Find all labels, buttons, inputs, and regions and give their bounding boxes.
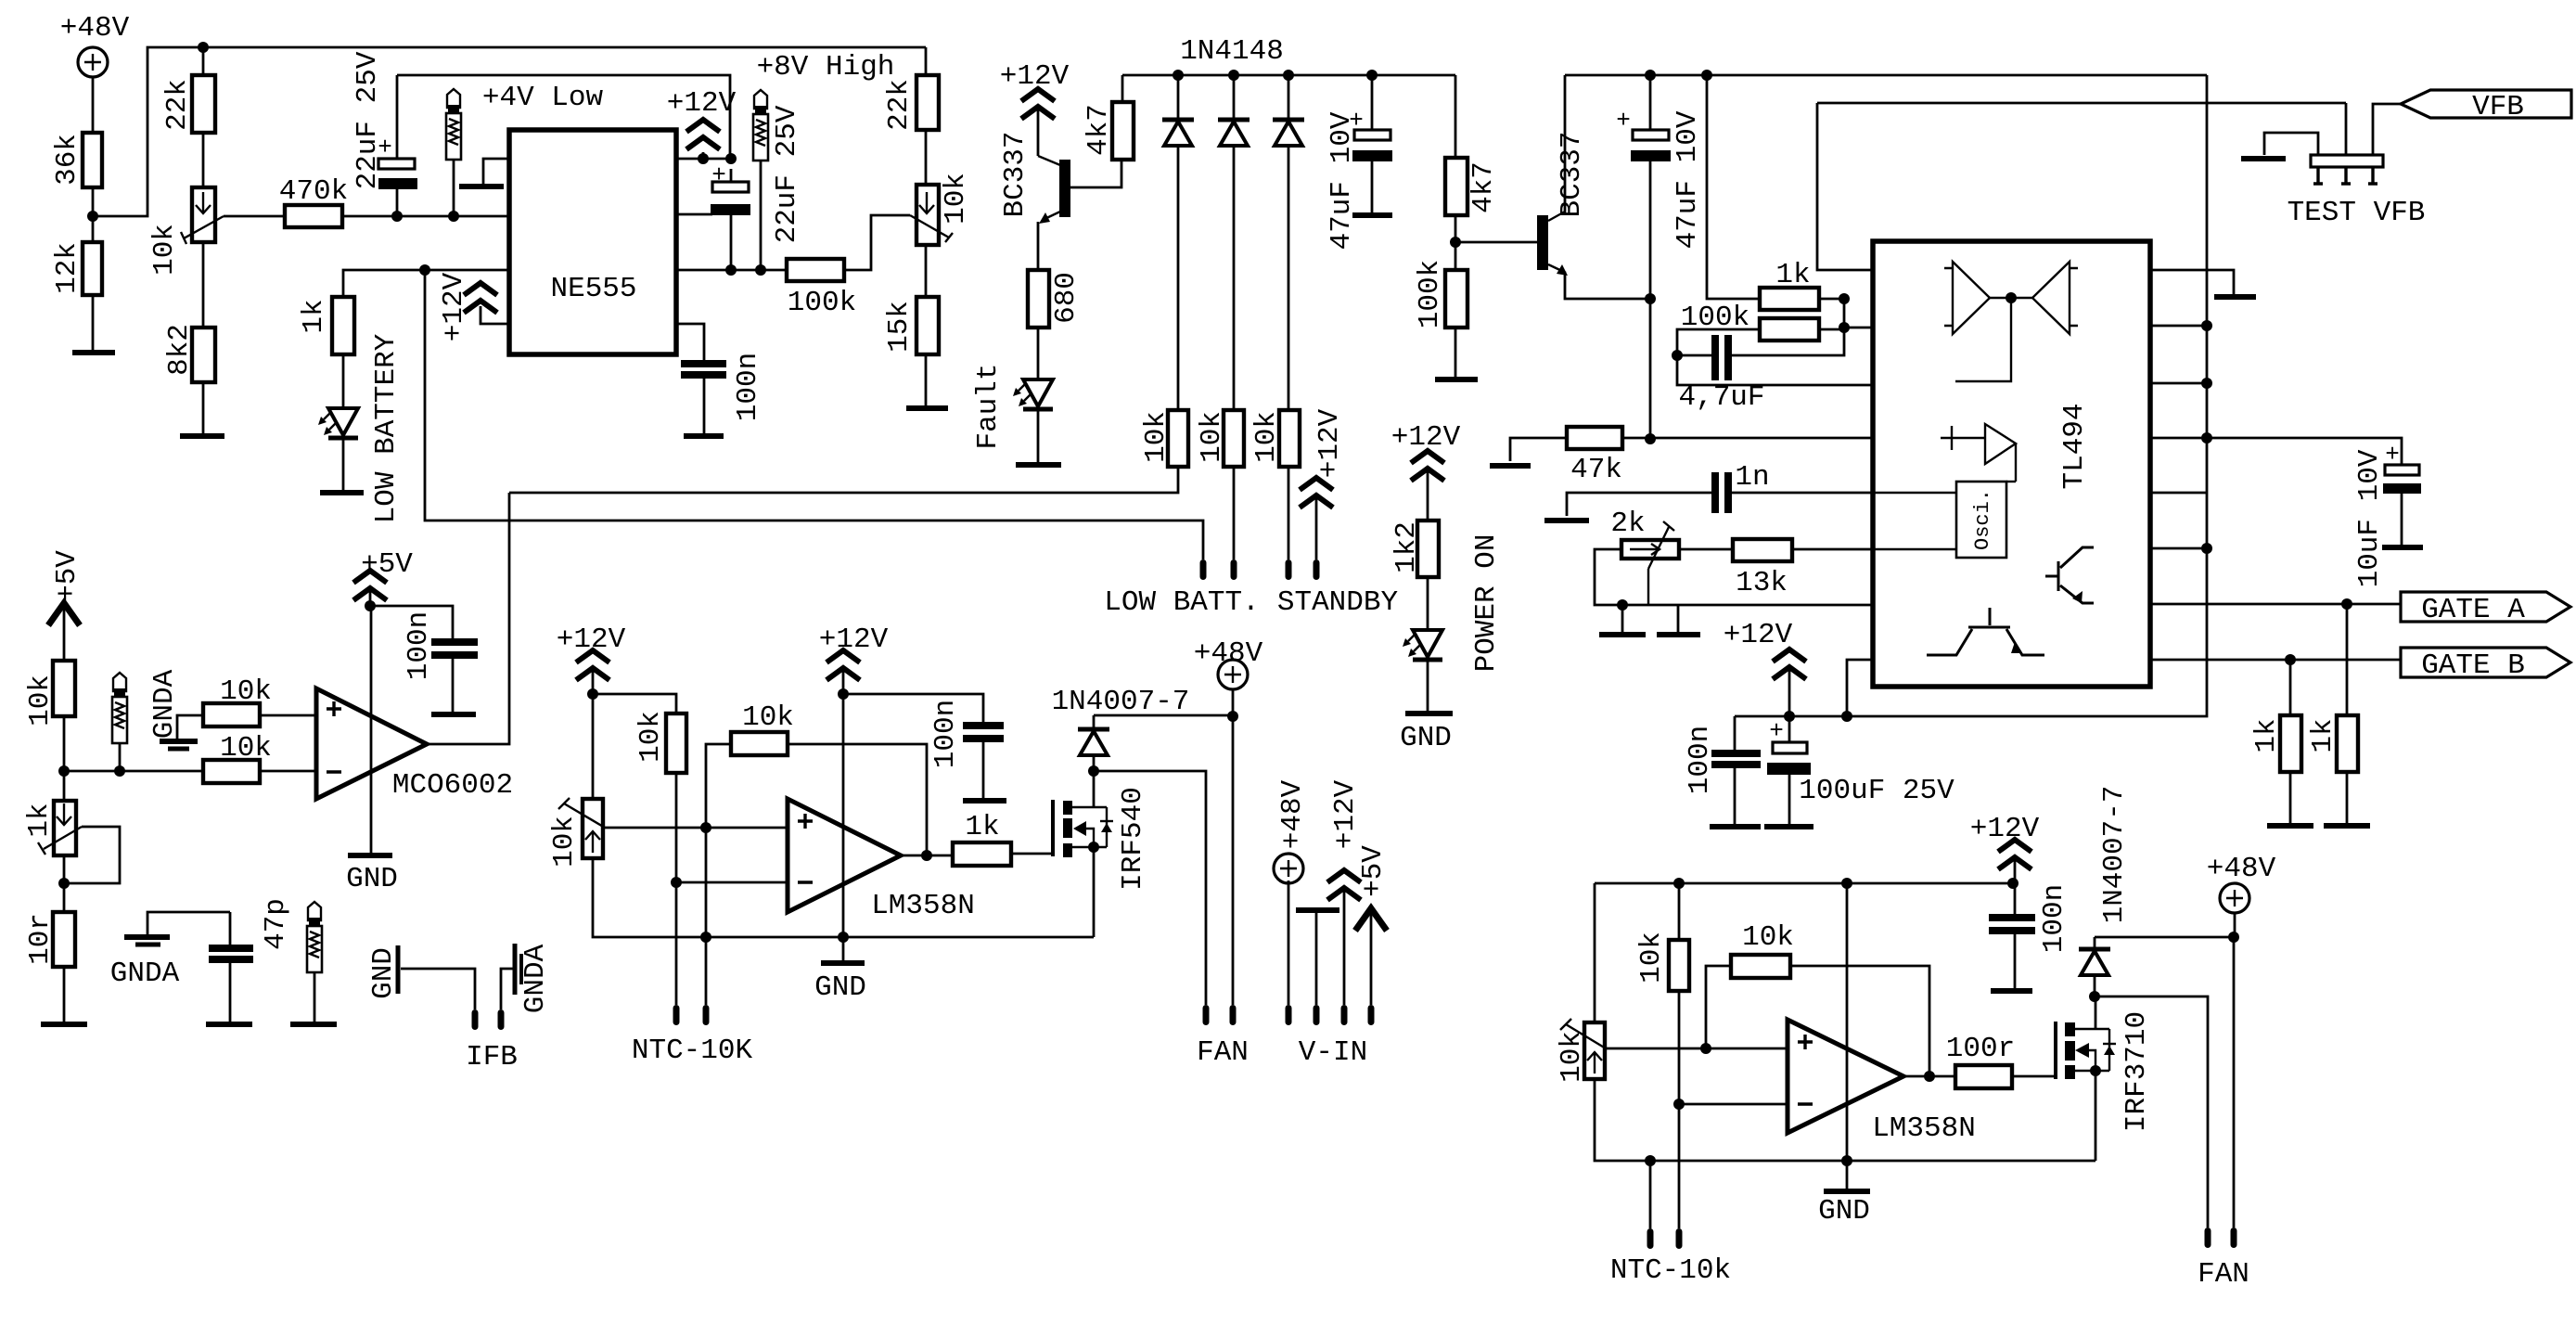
svg-text:+12V: +12V bbox=[1314, 408, 1346, 478]
svg-text:1k: 1k bbox=[23, 803, 56, 837]
+input wire bbox=[706, 827, 788, 829]
resistor 100k #3 bbox=[1760, 318, 1819, 341]
pin V-IN 4 bbox=[1368, 1005, 1375, 1025]
pin STANDBY 1 bbox=[1286, 559, 1292, 580]
trimmer 10k #2 bbox=[916, 185, 939, 245]
wire pin right gnd bbox=[2150, 270, 2234, 295]
op-amp U2 MCO6002 bbox=[316, 688, 427, 799]
oscillator box bbox=[1956, 482, 2006, 558]
wire pin right bbox=[2150, 382, 2207, 385]
svg-text:NTC-10k: NTC-10k bbox=[1610, 1254, 1731, 1287]
LED low battery bbox=[318, 408, 358, 438]
resistor 10k bias fan2 bbox=[1678, 883, 1681, 940]
svg-text:FAN: FAN bbox=[1197, 1036, 1249, 1069]
ground bbox=[684, 433, 724, 439]
power wire bbox=[370, 606, 373, 855]
svg-text:100k: 100k bbox=[788, 287, 856, 319]
ground bbox=[320, 490, 364, 495]
svg-text:4k7: 4k7 bbox=[1467, 161, 1500, 213]
svg-text:100n: 100n bbox=[403, 611, 435, 680]
svg-text:470k: 470k bbox=[279, 175, 348, 208]
resistor 100r bbox=[1955, 1065, 2012, 1088]
svg-text:10k: 10k bbox=[1635, 932, 1668, 983]
svg-text:GATE A: GATE A bbox=[2421, 594, 2525, 626]
svg-text:IRF540: IRF540 bbox=[1117, 787, 1149, 891]
svg-text:4k7: 4k7 bbox=[1083, 104, 1115, 156]
svg-text:10uF 10V: 10uF 10V bbox=[2353, 449, 2386, 587]
wire bbox=[1677, 329, 1760, 355]
wire bbox=[1455, 215, 1457, 270]
jumper J1 bbox=[446, 89, 461, 160]
wire top rail 1N4148 bbox=[1122, 74, 1455, 77]
svg-text:1N4148: 1N4148 bbox=[1180, 35, 1284, 68]
ground bar vin bbox=[1296, 907, 1339, 913]
ground bbox=[2324, 823, 2370, 829]
wire pin2 bbox=[1844, 327, 1873, 329]
jumper J3 bbox=[112, 673, 127, 743]
capacitor 47uF 10V bbox=[1371, 75, 1374, 130]
power flag +48V vin bbox=[1274, 854, 1303, 883]
svg-text:POWER ON: POWER ON bbox=[1470, 534, 1503, 673]
LED power on bbox=[1403, 630, 1442, 660]
wire 4k7 feed bbox=[1455, 75, 1457, 158]
wire FAN feed bbox=[1094, 771, 1206, 1005]
diode D4 1N4007-7 bbox=[1093, 715, 1096, 727]
ground bbox=[821, 960, 865, 966]
wire pin3 left bbox=[343, 270, 509, 297]
pin LOW BATT 2 bbox=[1231, 559, 1237, 580]
ground bbox=[1405, 711, 1453, 716]
node dot bbox=[198, 42, 209, 53]
ground bbox=[963, 798, 1006, 803]
ground bbox=[348, 853, 392, 858]
pin FAN 1 bbox=[1203, 1005, 1210, 1025]
resistor 36k bbox=[83, 133, 102, 187]
ground bbox=[1544, 518, 1589, 523]
svg-text:10k: 10k bbox=[1742, 921, 1794, 954]
resistor 10k bbox=[53, 661, 75, 716]
svg-text:+12V: +12V bbox=[1724, 619, 1793, 651]
wire bbox=[1037, 328, 1040, 379]
svg-text:BC337: BC337 bbox=[1556, 131, 1588, 217]
left rail wire bbox=[1594, 883, 1596, 1022]
ground bbox=[2267, 823, 2313, 829]
svg-text:+: + bbox=[2385, 441, 2400, 469]
svg-text:47uF 10V: 47uF 10V bbox=[1326, 111, 1358, 250]
wire FAN2 +48V bbox=[2233, 937, 2236, 1228]
svg-text:GATE B: GATE B bbox=[2421, 649, 2525, 682]
pin V-IN 1 bbox=[1286, 1005, 1292, 1025]
svg-text:12k: 12k bbox=[51, 242, 83, 294]
wire NTC2 bbox=[705, 828, 708, 1005]
capacitor 22uF 25V bbox=[396, 75, 399, 159]
svg-text:LM358N: LM358N bbox=[1872, 1112, 1976, 1145]
pin NTC 1 bbox=[673, 1005, 680, 1025]
svg-text:22uF 25V: 22uF 25V bbox=[771, 105, 803, 243]
svg-text:+12V: +12V bbox=[667, 87, 737, 120]
svg-text:IRF3710: IRF3710 bbox=[2121, 1011, 2153, 1132]
power +12V left bbox=[481, 306, 509, 324]
svg-text:V-IN: V-IN bbox=[1299, 1036, 1367, 1069]
svg-text:LM358N: LM358N bbox=[871, 890, 975, 922]
wire to +48V bbox=[1094, 714, 1233, 717]
svg-text:BC337: BC337 bbox=[999, 131, 1032, 217]
capacitor 22uF 25V #2 bbox=[712, 182, 749, 192]
svg-text:1N4007-7: 1N4007-7 bbox=[1052, 686, 1190, 718]
ground bbox=[41, 1022, 87, 1027]
svg-text:1k: 1k bbox=[2307, 718, 2339, 752]
svg-text:10k: 10k bbox=[220, 732, 272, 765]
wire 2k bottom rail bbox=[1595, 549, 1873, 605]
svg-text:+12V: +12V bbox=[1000, 60, 1070, 93]
internal transistor T2 bbox=[1927, 608, 2044, 655]
svg-text:+8V High: +8V High bbox=[757, 51, 895, 84]
wire bbox=[92, 77, 95, 133]
power flag +48V bbox=[1218, 660, 1248, 689]
resistor 1k low battery bbox=[332, 297, 354, 354]
resistor 10k bias bbox=[666, 713, 686, 773]
svg-text:100r: 100r bbox=[1946, 1033, 2015, 1065]
wire feedback top bbox=[1817, 102, 2346, 105]
wire bbox=[202, 47, 205, 75]
capacitor 47p bbox=[229, 912, 232, 945]
capacitor 10uF 10V bbox=[2385, 465, 2419, 475]
power wire op2 bbox=[1846, 883, 1849, 1189]
svg-text:GND: GND bbox=[1400, 722, 1452, 754]
svg-text:+12V: +12V bbox=[438, 272, 470, 341]
wire bbox=[1427, 577, 1429, 630]
wire gnd rail bbox=[593, 858, 1094, 937]
ground gnda bbox=[177, 715, 203, 739]
wire pin right bbox=[2150, 325, 2207, 328]
wire NE555 pin right +12V bbox=[676, 158, 731, 161]
resistor 1k bbox=[1760, 288, 1819, 310]
resistor 10k feedback fan2 bbox=[1731, 955, 1790, 978]
svg-text:47uF 10V: 47uF 10V bbox=[1672, 110, 1704, 249]
trimmer 10k bbox=[192, 187, 215, 242]
long wire NE555 low-batt sense bbox=[425, 270, 1203, 559]
banner VFB bbox=[2401, 90, 2571, 118]
transistor Q2 BC337 bbox=[1537, 215, 1548, 270]
svg-text:+: + bbox=[1769, 717, 1784, 745]
transistor Q3 IRF540 bbox=[1051, 800, 1055, 856]
capacitor 100n fan1 bbox=[843, 694, 983, 722]
svg-text:Fault: Fault bbox=[972, 363, 1005, 449]
svg-text:TL494: TL494 bbox=[2058, 403, 2091, 489]
wire bbox=[63, 855, 66, 912]
error amp triangles bbox=[1953, 262, 1990, 334]
svg-text:1k2: 1k2 bbox=[1391, 521, 1423, 573]
svg-text:VFB: VFB bbox=[2472, 91, 2524, 123]
wire VFB middle pin bbox=[2345, 103, 2348, 155]
resistor 10k feedback bbox=[731, 732, 788, 755]
IC TL494 bbox=[1873, 241, 2150, 687]
wire diode to +48V bbox=[2095, 936, 2234, 939]
svg-text:13k: 13k bbox=[1736, 567, 1788, 599]
resistor 12k bbox=[83, 242, 102, 295]
svg-text:10r: 10r bbox=[24, 913, 57, 965]
pin NTC2-1 bbox=[1647, 1228, 1654, 1249]
svg-text:1N4007-7: 1N4007-7 bbox=[2098, 786, 2131, 924]
svg-text:10k: 10k bbox=[1556, 1031, 1588, 1083]
wire to pin 1 bbox=[1817, 103, 1873, 270]
capacitor 47uF 10V #2 bbox=[1649, 75, 1652, 130]
svg-text:FAN: FAN bbox=[2198, 1258, 2249, 1291]
svg-text:GND: GND bbox=[814, 971, 866, 1004]
pin V-IN 3 bbox=[1341, 1005, 1348, 1025]
wire bbox=[63, 716, 66, 801]
wire pin4 dead time bbox=[1650, 437, 1873, 440]
wire bbox=[202, 382, 205, 436]
node dot bbox=[87, 211, 98, 222]
resistor 10k - bbox=[203, 760, 260, 783]
resistor 470k bbox=[285, 205, 342, 227]
wire top rail right bbox=[1565, 74, 2207, 77]
capacitor 1n bbox=[1711, 472, 1719, 513]
resistor 4k7 bbox=[1112, 102, 1134, 160]
svg-text:+12V: +12V bbox=[819, 624, 889, 656]
svg-text:10k: 10k bbox=[1196, 411, 1228, 463]
resistor 680 bbox=[1028, 270, 1049, 328]
capacitor 100uF 25V bbox=[1788, 716, 1791, 742]
svg-text:+: + bbox=[1616, 107, 1631, 135]
wire NE555 out right bbox=[676, 269, 787, 272]
resistor 1k gate A bbox=[2346, 604, 2349, 715]
ground bbox=[459, 184, 504, 189]
svg-text:10k: 10k bbox=[548, 816, 581, 868]
resistor 15k bbox=[916, 297, 939, 354]
-input wire bbox=[1679, 1103, 1788, 1106]
ground bbox=[906, 405, 948, 411]
output wire bbox=[427, 493, 509, 744]
svg-text:1k: 1k bbox=[298, 299, 330, 333]
wiper wire bbox=[1647, 569, 1649, 605]
wire bbox=[1622, 437, 1650, 440]
resistor 10k bbox=[1279, 410, 1300, 467]
ground stub bbox=[1621, 605, 1624, 633]
node dot bbox=[419, 264, 430, 276]
ground bbox=[2241, 156, 2286, 161]
svg-text:+5V: +5V bbox=[51, 550, 83, 602]
capacitor 100n rail bbox=[1734, 716, 1737, 750]
pin NTC 2 bbox=[703, 1005, 710, 1025]
wire bbox=[1455, 328, 1457, 379]
wire bbox=[92, 187, 95, 242]
svg-text:10k: 10k bbox=[220, 675, 272, 708]
capacitor 100n bbox=[681, 360, 726, 367]
ground bbox=[1352, 212, 1392, 218]
svg-text:+5V: +5V bbox=[1357, 845, 1390, 897]
wire pin right bbox=[2150, 547, 2207, 550]
svg-text:10k: 10k bbox=[24, 675, 57, 726]
wire FAN +48V bbox=[1232, 716, 1235, 1005]
internal transistor T1 bbox=[2045, 547, 2094, 603]
svg-text:2k: 2k bbox=[1610, 508, 1645, 540]
svg-text:+48V: +48V bbox=[60, 12, 130, 45]
wire bbox=[925, 354, 928, 408]
wire GATE A bbox=[2150, 603, 2401, 606]
svg-text:GNDA: GNDA bbox=[519, 944, 552, 1013]
svg-text:10k: 10k bbox=[1140, 411, 1173, 463]
drain wire bbox=[2095, 996, 2097, 1029]
resistor 100k #2 bbox=[1445, 270, 1467, 328]
ground bbox=[1764, 824, 1813, 829]
resistor 47k bbox=[1567, 427, 1622, 449]
IC NE555 bbox=[509, 130, 676, 354]
resistor 10r bbox=[53, 912, 75, 967]
wiper wire bbox=[1605, 1048, 1706, 1050]
resistor 1k gate bbox=[953, 842, 1011, 866]
ground bbox=[1016, 462, 1061, 468]
svg-text:100n: 100n bbox=[2038, 884, 2070, 953]
wire bbox=[1121, 75, 1124, 102]
power +12V bbox=[576, 650, 609, 680]
trimmer 10k fan2 bbox=[1584, 1022, 1605, 1079]
wire to top rail bbox=[93, 47, 926, 216]
op-amp U3 LM358N bbox=[788, 799, 901, 912]
wire pin right to 10uF bbox=[2150, 437, 2207, 440]
ground bbox=[290, 1022, 337, 1027]
wire bbox=[342, 215, 509, 218]
LED Fault bbox=[1013, 379, 1053, 409]
diode D1 1N4148 bbox=[1177, 75, 1180, 118]
svg-text:TEST VFB: TEST VFB bbox=[2288, 197, 2426, 229]
wire FAN2 feed bbox=[2095, 996, 2208, 1228]
ground bbox=[2382, 545, 2423, 550]
svg-text:8k2: 8k2 bbox=[163, 324, 196, 376]
svg-text:LOW BATT.: LOW BATT. bbox=[1104, 586, 1259, 619]
trimmer 2k bbox=[1621, 540, 1679, 559]
svg-text:STANDBY: STANDBY bbox=[1277, 586, 1399, 619]
wire bbox=[1233, 467, 1236, 559]
-input wire bbox=[676, 881, 788, 884]
svg-text:100n: 100n bbox=[1684, 726, 1716, 794]
ground bbox=[72, 350, 115, 355]
capacitor 4,7uF bbox=[1711, 335, 1719, 380]
ground bbox=[180, 433, 224, 439]
svg-text:MCO6002: MCO6002 bbox=[392, 769, 513, 802]
pin V-IN 2 bbox=[1314, 1005, 1320, 1025]
wire 1k feed bbox=[1707, 75, 1760, 299]
+input wire bbox=[1706, 1048, 1788, 1050]
svg-text:1k: 1k bbox=[1775, 259, 1810, 291]
svg-text:10k: 10k bbox=[742, 701, 794, 734]
ground bbox=[431, 712, 476, 717]
node dot bbox=[391, 211, 403, 222]
wire VFB right pin bbox=[2373, 104, 2401, 155]
ground bbox=[1435, 377, 1478, 382]
wire NE555 pin2 right bbox=[676, 213, 712, 216]
svg-text:680: 680 bbox=[1050, 272, 1083, 324]
svg-text:22uF 25V: 22uF 25V bbox=[352, 51, 384, 189]
ground bbox=[1490, 463, 1531, 469]
resistor 10k + bbox=[203, 703, 260, 726]
svg-text:GNDA: GNDA bbox=[110, 958, 180, 990]
svg-text:+12V: +12V bbox=[1329, 779, 1362, 849]
wire bbox=[675, 773, 678, 1005]
wire pin right bbox=[2150, 492, 2207, 495]
base wire Q2 bbox=[1455, 241, 1537, 244]
ground bbox=[2214, 294, 2256, 300]
source wire bbox=[2095, 1071, 2097, 1161]
resistor 4k7 #2 bbox=[1445, 158, 1467, 215]
base wire bbox=[1070, 160, 1121, 187]
diode D3 1N4148 bbox=[1288, 75, 1290, 118]
header pins bbox=[2313, 167, 2377, 184]
svg-text:10k: 10k bbox=[634, 711, 667, 763]
trimmer 10k fan1 bbox=[592, 694, 595, 799]
svg-text:10k: 10k bbox=[1250, 411, 1283, 463]
pin FAN2 1 bbox=[2205, 1228, 2211, 1248]
source wire bbox=[1093, 847, 1096, 937]
drain wire bbox=[1093, 771, 1096, 807]
svg-text:+: + bbox=[711, 161, 726, 189]
wire GATE B bbox=[2150, 659, 2401, 662]
wire bbox=[593, 694, 676, 713]
vertical +12V feed bbox=[1735, 75, 2207, 716]
svg-text:10k: 10k bbox=[940, 173, 972, 225]
svg-text:IFB: IFB bbox=[466, 1041, 518, 1073]
pin wire to ground tab bbox=[483, 159, 509, 185]
resistor 8k2 bbox=[192, 328, 215, 382]
power flag +48V bbox=[78, 47, 108, 77]
svg-text:Osci.: Osci. bbox=[1971, 489, 1994, 550]
pin STANDBY 2 bbox=[1314, 559, 1320, 580]
wire bbox=[92, 295, 95, 353]
svg-text:GND: GND bbox=[1818, 1195, 1870, 1228]
svg-text:100k: 100k bbox=[1414, 260, 1446, 328]
resistor 10k bbox=[1224, 410, 1244, 467]
wiper wire bbox=[603, 827, 706, 829]
wire bbox=[925, 245, 928, 297]
svg-text:47p: 47p bbox=[260, 898, 292, 950]
resistor 10k bbox=[1168, 410, 1188, 467]
resistor 22k #2 bbox=[916, 75, 939, 130]
svg-text:100n: 100n bbox=[929, 700, 962, 768]
wire bbox=[1819, 298, 1844, 301]
wire bbox=[342, 354, 345, 408]
wire pin12 +12V bbox=[1847, 660, 1873, 716]
ground GNDA 2 bbox=[147, 912, 230, 935]
svg-text:LOW BATTERY: LOW BATTERY bbox=[370, 333, 403, 523]
svg-text:22k: 22k bbox=[161, 79, 194, 131]
wire wiper 10k pot bbox=[224, 215, 285, 218]
svg-text:100uF 25V: 100uF 25V bbox=[1799, 775, 1954, 807]
resistor 13k bbox=[1733, 539, 1792, 561]
wire bbox=[202, 133, 205, 187]
resistor 22k bbox=[192, 75, 215, 133]
svg-text:1n: 1n bbox=[1735, 461, 1769, 494]
wire bbox=[925, 47, 928, 75]
resistor 100k bbox=[787, 259, 844, 281]
top rail wire bbox=[1595, 882, 2013, 885]
power +5V arrow bbox=[48, 603, 80, 625]
capacitor 100n op bbox=[370, 606, 453, 638]
svg-text:GND: GND bbox=[346, 863, 398, 895]
TEST VFB header bbox=[2264, 133, 2318, 155]
output wire bbox=[1903, 1075, 1955, 1078]
wire NE555 pin right to 100n bbox=[676, 324, 704, 360]
power +12V right bbox=[702, 152, 705, 159]
svg-text:+48V: +48V bbox=[1276, 779, 1309, 849]
wiper wire bbox=[64, 827, 120, 883]
op-amp U4 LM358N bbox=[1788, 1020, 1903, 1133]
trimmer 1k bbox=[54, 801, 76, 855]
svg-text:GND: GND bbox=[367, 947, 400, 999]
wire NTC2-1 bbox=[1649, 1161, 1652, 1228]
pin FAN 2 bbox=[1230, 1005, 1237, 1025]
wire bbox=[1288, 467, 1290, 559]
